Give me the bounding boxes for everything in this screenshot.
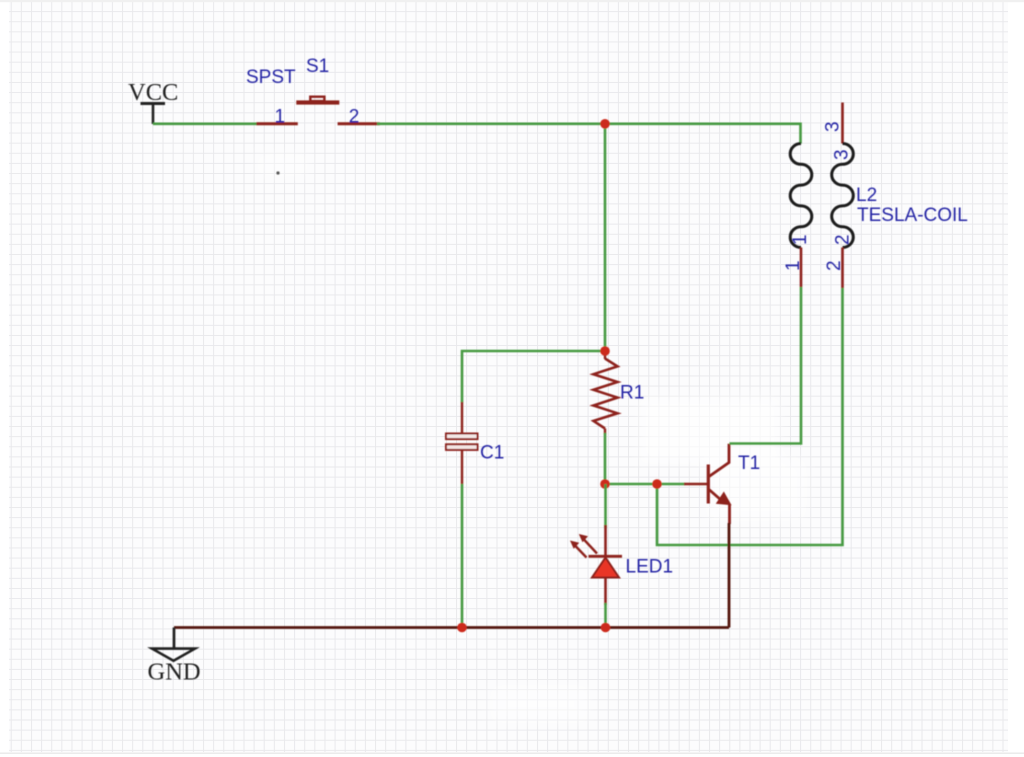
junction node C bbox=[600, 479, 610, 489]
junction node F bbox=[601, 623, 611, 633]
switch S1 bbox=[256, 97, 379, 124]
capacitor C1 bbox=[446, 402, 478, 484]
wire C1 to ground rail bbox=[461, 484, 464, 628]
svg-text:1: 1 bbox=[790, 234, 811, 245]
inductor L2 winding 1 bbox=[790, 144, 812, 288]
wire node C to node D bbox=[605, 483, 657, 486]
transistor T1 bbox=[684, 444, 731, 524]
svg-text:1: 1 bbox=[783, 260, 804, 271]
junction node A bbox=[600, 119, 610, 129]
wire node A to R1 bbox=[604, 124, 607, 351]
wire node B to C1 bbox=[462, 351, 605, 403]
stray mark bbox=[276, 171, 279, 174]
resistor R1 bbox=[594, 351, 618, 434]
wire VCC to S1 pin 1 bbox=[153, 123, 257, 126]
svg-text:2: 2 bbox=[349, 106, 360, 127]
svg-text:GND: GND bbox=[148, 659, 201, 686]
svg-text:2: 2 bbox=[824, 260, 845, 271]
svg-text:1: 1 bbox=[275, 106, 286, 127]
junction node B bbox=[600, 346, 610, 356]
wire T1 collector to L2 pin1 bbox=[730, 287, 802, 444]
svg-text:3: 3 bbox=[823, 121, 844, 132]
svg-text:2: 2 bbox=[833, 234, 854, 245]
wire node D to L2 pin2 bbox=[657, 288, 843, 545]
svg-text:SPST: SPST bbox=[246, 67, 296, 88]
inductor L2 winding 2 bbox=[832, 103, 854, 289]
junction node E bbox=[457, 623, 467, 633]
wire node D to T1 base bbox=[657, 483, 685, 486]
svg-text:C1: C1 bbox=[480, 443, 504, 464]
svg-text:S1: S1 bbox=[306, 56, 329, 77]
svg-text:VCC: VCC bbox=[128, 79, 178, 106]
junction node D bbox=[652, 479, 662, 489]
washed white patches bbox=[255, 152, 806, 723]
svg-text:TESLA-COIL: TESLA-COIL bbox=[857, 205, 968, 226]
LED LED1 bbox=[570, 484, 622, 628]
svg-text:3: 3 bbox=[832, 149, 853, 160]
wire T1 emitter to rail bbox=[728, 523, 731, 628]
svg-text:T1: T1 bbox=[738, 453, 760, 474]
wire R1 to node C bbox=[604, 433, 607, 484]
ground rail wire bbox=[174, 626, 729, 629]
svg-text:L2: L2 bbox=[856, 185, 877, 206]
svg-text:R1: R1 bbox=[620, 383, 644, 404]
ground symbol GND bbox=[148, 628, 201, 686]
power flag VCC bbox=[128, 79, 178, 124]
svg-text:LED1: LED1 bbox=[626, 557, 674, 578]
wire S1 pin2 to L2 pin1 bbox=[377, 124, 801, 144]
